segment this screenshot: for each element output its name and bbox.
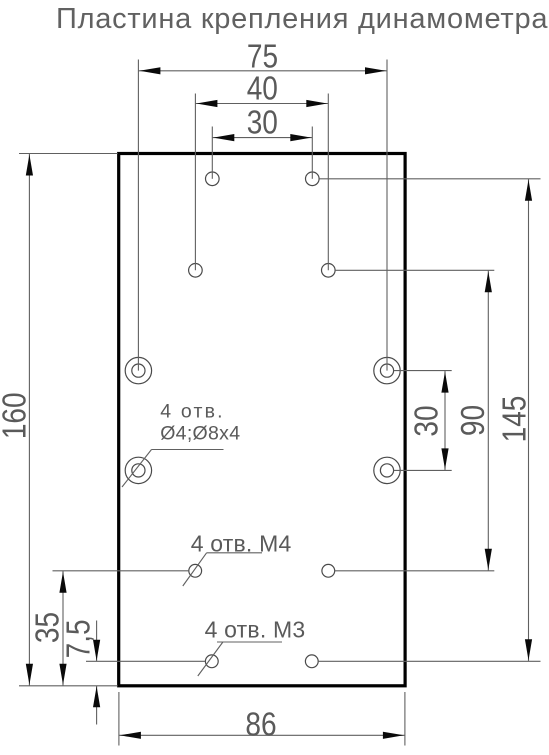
svg-text:4 отв.: 4 отв. <box>160 401 225 423</box>
extension line bottom-right corner (downwards) <box>404 692 406 746</box>
label 4 отв. М3 with leader <box>198 616 306 676</box>
dimension 30 (top) <box>212 104 312 141</box>
label 4 отв. М4 with leader <box>183 531 292 587</box>
dimension 30 (right, between counterbores) <box>408 371 448 471</box>
svg-text:30: 30 <box>247 104 278 141</box>
extension line row2-right hole (to the right) <box>335 269 494 271</box>
counterbore hole lower-left Ø4/Ø8x4 <box>125 457 151 483</box>
svg-text:145: 145 <box>496 396 533 443</box>
svg-text:4 отв. М3: 4 отв. М3 <box>205 616 306 642</box>
hole M4 right <box>322 564 335 577</box>
dimension 90 (right) <box>455 270 492 571</box>
extension line left 75-column (down to upper-left counterbore) <box>137 60 139 371</box>
counterbore hole upper-left Ø4/Ø8x4 <box>125 357 151 383</box>
hole top-left Ø4 (30mm row) <box>206 172 220 186</box>
hole M4 left <box>189 564 202 577</box>
extension line left 40-column (down to row2 left hole) <box>194 94 196 271</box>
dimension 160 (left) <box>0 154 33 686</box>
extension line bottom edge (to the left) <box>19 685 118 687</box>
extension line bottom-left corner (downwards) <box>118 692 120 746</box>
svg-text:Пластина крепления динамометра: Пластина крепления динамометра <box>56 3 548 35</box>
extension line M3 row (to the left, through plate edge) <box>86 660 205 662</box>
label 4 отв. Ø4;Ø8x4 (counterbore holes) with leader <box>122 401 240 488</box>
dimension 35 (left) <box>30 571 67 686</box>
extension line M4 row (to the left, through plate edge) <box>53 570 190 572</box>
hole top-right Ø4 (30mm row) <box>306 172 320 186</box>
extension line right 30-column (down to top-right hole) <box>311 127 313 179</box>
svg-text:40: 40 <box>247 70 278 107</box>
plate outline (86x160 plate, thick contour) <box>119 154 405 686</box>
extension line top edge (to the left) <box>19 153 118 155</box>
svg-text:4 отв. М4: 4 отв. М4 <box>191 531 292 557</box>
counterbore hole upper-right Ø4/Ø8x4 <box>374 357 400 383</box>
hole M3 right <box>305 655 318 668</box>
hole row2-left Ø4 (40mm row) <box>189 264 203 278</box>
dimension 145 (right) <box>496 179 533 662</box>
counterbore hole lower-right Ø4/Ø8x4 <box>374 457 400 483</box>
svg-text:160: 160 <box>0 392 33 439</box>
title: drawing caption <box>56 3 548 35</box>
svg-text:7,5: 7,5 <box>60 619 97 658</box>
dimension 40 (top) <box>195 70 328 107</box>
svg-text:30: 30 <box>408 405 445 436</box>
extension line top-right hole (to the right) <box>319 178 540 180</box>
extension line M3-right hole (to the right) <box>318 660 540 662</box>
extension line right 75-column (down to upper-right counterbore) <box>386 60 388 371</box>
svg-text:86: 86 <box>245 706 276 743</box>
dimension 86 (bottom) <box>119 706 405 743</box>
hole row2-right Ø4 (40mm row) <box>322 264 336 278</box>
hole M3 left <box>205 655 218 668</box>
svg-text:Ø4;Ø8х4: Ø4;Ø8х4 <box>160 423 240 445</box>
extension line left 30-column (down to top-left hole) <box>211 127 213 179</box>
dimension 75 (top) <box>138 38 387 75</box>
extension line right 40-column (down to row2 right hole) <box>327 94 329 271</box>
extension line upper-right counterbore row (to the right) <box>394 370 452 372</box>
svg-text:90: 90 <box>455 405 492 436</box>
extension line lower-right counterbore row (to the right) <box>394 469 452 471</box>
dimension 7,5 (left, arrows outside) <box>60 619 100 724</box>
extension line M4-right hole (to the right) <box>335 570 495 572</box>
